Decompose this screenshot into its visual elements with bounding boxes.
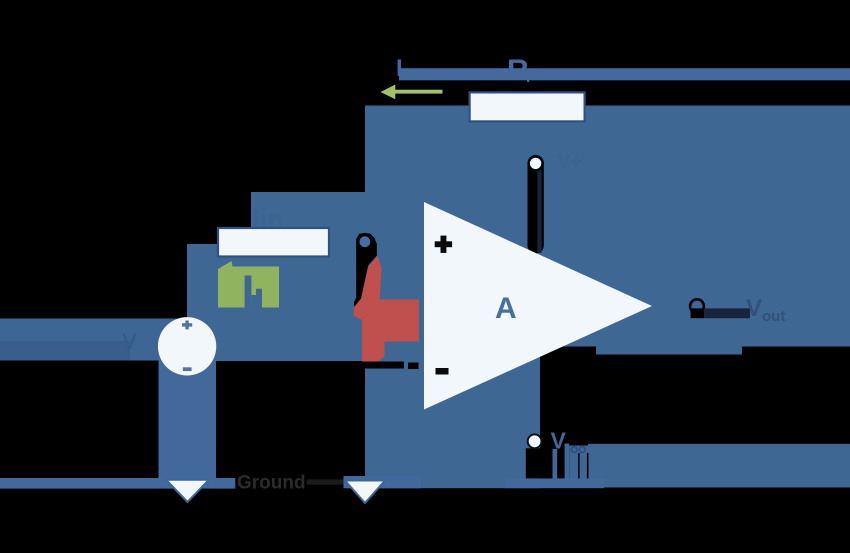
wire output dark [704, 308, 750, 318]
node fill region right of apex [596, 346, 742, 355]
op-amp U1 [424, 202, 652, 410]
svg-text:f: f [403, 68, 408, 83]
arrow feedback current green [381, 85, 396, 100]
resistor Rf box [470, 92, 585, 121]
node V- supply blobs [542, 433, 552, 449]
wire bottom middle rail [505, 478, 604, 488]
node fill region top/right loop [365, 106, 850, 347]
wire V- label columns [553, 449, 558, 479]
op-amp plus input [435, 241, 452, 247]
wire source down column [159, 346, 217, 478]
svg-text:V: V [122, 329, 137, 354]
svg-text:A: A [495, 292, 517, 325]
node fill region below op-amp [365, 346, 540, 488]
wire V+ supply line [537, 170, 541, 253]
node inverting input slot [354, 234, 377, 310]
wire ground rail right [344, 476, 422, 488]
node inverting input [356, 233, 374, 251]
ground left [166, 480, 209, 502]
svg-text:Ground: Ground [237, 473, 306, 494]
arrow current red [354, 255, 420, 361]
op-amp minus input [436, 368, 449, 375]
ground right [345, 481, 385, 504]
source Vin [158, 317, 216, 375]
svg-text:V+: V+ [557, 151, 582, 173]
wire top feedback rail [399, 68, 850, 80]
node V- supply [528, 434, 542, 448]
wire dashed virtual ground [360, 362, 404, 369]
resistor Rin box [218, 228, 329, 257]
node V+ supply [529, 157, 543, 171]
wire input rail lower shade [0, 341, 130, 361]
node output [690, 299, 704, 313]
svg-text:V: V [746, 295, 762, 322]
wire ground link dark [307, 479, 344, 484]
wire ground rail left [0, 478, 235, 489]
icon input current green [218, 261, 279, 308]
node fill region bottom right [588, 444, 850, 488]
svg-text:out: out [762, 308, 785, 325]
node fill region input loop [187, 244, 365, 361]
node fill region above input resistor [251, 192, 365, 244]
wire V+ supply slot [528, 155, 544, 254]
svg-text:f: f [526, 69, 532, 86]
svg-text:I: I [396, 55, 403, 82]
wire input rail left [0, 319, 187, 361]
